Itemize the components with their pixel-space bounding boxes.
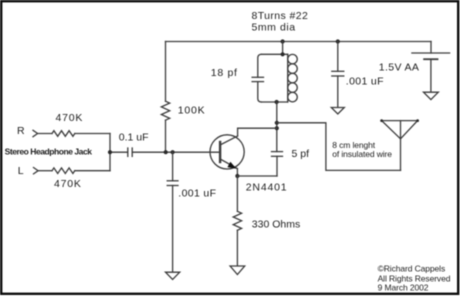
svg-text:R: R	[17, 125, 25, 137]
ground under emitter resistor	[230, 266, 245, 275]
svg-text:L: L	[18, 165, 24, 177]
svg-text:Stereo Headphone Jack: Stereo Headphone Jack	[5, 147, 93, 157]
wire emitter to feedback cap	[237, 175, 277, 177]
capacitor C3 5 pf feedback	[272, 152, 283, 176]
node junction top rail to bypass cap	[336, 39, 340, 43]
label 8 cm lenght of insulated wire	[332, 140, 392, 159]
capacitor C5 .001 uF base filter	[167, 152, 178, 272]
inductor L1 coil 8 turns	[288, 54, 298, 102]
capacitor C1 18 pf	[252, 54, 263, 102]
svg-text:of insulated wire: of insulated wire	[332, 149, 392, 159]
wire R resistor to summing	[75, 133, 110, 135]
wire tank bottom	[261, 101, 287, 103]
wire collector node to antenna lead-in	[277, 123, 401, 171]
node junction collector tap	[275, 126, 279, 130]
svg-text:0.1 uF: 0.1 uF	[119, 131, 149, 143]
node junction antenna tap	[275, 121, 279, 125]
resistor R2 470K bottom	[52, 168, 75, 174]
resistor R1 470K top	[52, 131, 75, 137]
transistor Q1 2N4401	[210, 128, 277, 176]
svg-text:2N4401: 2N4401	[246, 182, 288, 194]
node junction top rail to tank	[281, 39, 285, 43]
wire summing vertical	[109, 134, 111, 171]
node junction emitter	[235, 174, 239, 178]
svg-text:©Richard Cappels: ©Richard Cappels	[378, 264, 446, 274]
wire tank top	[261, 53, 287, 55]
label 8Turns #22 / 5mm dia	[252, 10, 309, 34]
wire R input	[38, 133, 52, 135]
svg-text:100K: 100K	[178, 104, 206, 116]
connector chevron R input	[33, 130, 38, 136]
wire coupling cap to base	[132, 151, 220, 153]
svg-text:.001 uF: .001 uF	[346, 76, 384, 88]
wire top supply rail	[166, 41, 432, 43]
wire tank feed drop	[282, 42, 284, 55]
resistor R3 100K	[161, 42, 169, 153]
wire summing node to coupling cap	[110, 151, 128, 153]
capacitor C2 .001 uF bypass	[332, 42, 344, 108]
resistor R4 330 Ohms	[233, 176, 241, 266]
svg-text:1.5V AA: 1.5V AA	[379, 61, 419, 73]
label copyright	[378, 264, 451, 293]
ground under base filter cap	[166, 272, 180, 279]
svg-text:.001 uF: .001 uF	[178, 187, 216, 199]
svg-text:5mm dia: 5mm dia	[252, 22, 296, 34]
svg-text:470K: 470K	[54, 178, 82, 190]
svg-text:330 Ohms: 330 Ohms	[252, 218, 300, 230]
ground under bypass cap	[331, 108, 344, 115]
svg-text:9 March 2002: 9 March 2002	[378, 283, 429, 293]
wire tank bottom to collector node	[276, 102, 278, 152]
battery BT1 1.5V AA	[412, 42, 450, 93]
capacitor C4 0.1 uF coupling	[128, 148, 132, 156]
svg-text:8Turns #22: 8Turns #22	[252, 10, 309, 22]
node junction tank bottom	[275, 100, 279, 104]
svg-text:470K: 470K	[56, 112, 84, 124]
wire L input	[38, 170, 52, 172]
wire L resistor to summing	[75, 170, 110, 172]
svg-text:5 pf: 5 pf	[292, 148, 310, 160]
node junction base bias	[164, 150, 168, 154]
antenna A1	[380, 119, 419, 170]
node junction tank top	[281, 52, 285, 56]
node junction summing	[108, 150, 112, 154]
ground under battery	[424, 92, 439, 99]
connector chevron L input	[34, 168, 39, 174]
node junction base filter	[171, 150, 175, 154]
svg-text:18 pf: 18 pf	[211, 67, 238, 79]
